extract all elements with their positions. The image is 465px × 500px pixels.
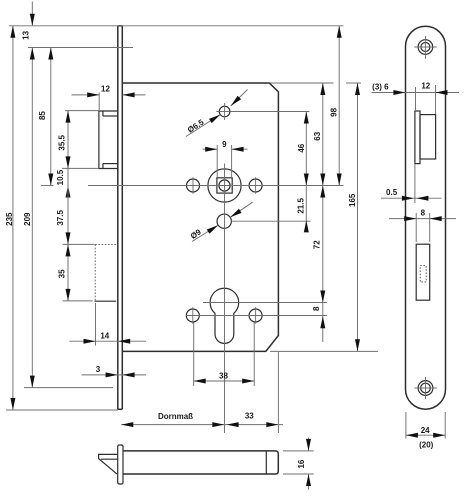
svg-text:(3) 6: (3) 6	[372, 82, 389, 91]
hole D6.5	[219, 106, 230, 117]
svg-text:98: 98	[329, 107, 338, 116]
dimension 8 plan	[389, 218, 456, 220]
svg-text:46: 46	[297, 143, 306, 152]
deadbolt slot	[416, 244, 430, 300]
svg-text:35: 35	[58, 269, 67, 278]
svg-text:Ø6.5: Ø6.5	[186, 117, 206, 134]
screw hole right of cylinder	[249, 309, 262, 322]
fixing hole left of follower	[187, 179, 200, 192]
dimension 24	[406, 434, 445, 436]
svg-text:3: 3	[96, 365, 101, 374]
latch plan view	[415, 111, 420, 164]
svg-text:(20): (20)	[419, 441, 434, 450]
svg-text:16: 16	[297, 459, 306, 468]
dimension 35	[67, 244, 69, 301]
svg-text:8: 8	[312, 306, 321, 311]
svg-text:165: 165	[348, 193, 357, 207]
bottom screw hole	[418, 381, 433, 396]
hole D9	[217, 214, 231, 228]
dimension 209	[31, 48, 33, 388]
dimension 16	[308, 438, 310, 451]
follower inner circle	[219, 180, 230, 191]
latch tip bevel	[99, 454, 118, 474]
svg-text:8: 8	[421, 208, 426, 217]
dimension 38	[194, 380, 255, 382]
dimension 0.5	[381, 197, 442, 199]
D9 centerline right	[231, 220, 310, 222]
209 bottom extension line	[24, 387, 113, 389]
follower square nut	[217, 178, 232, 193]
cylinder horizontal centerline	[203, 302, 327, 304]
svg-text:35.5: 35.5	[58, 134, 67, 150]
profile cylinder hole	[210, 288, 239, 343]
faceplate edge view	[118, 445, 123, 484]
screw holes centerline	[186, 315, 327, 317]
dimension 9	[203, 148, 218, 150]
deadbolt width extension line	[95, 303, 97, 346]
svg-text:10.5: 10.5	[56, 169, 65, 185]
vertical centerline main axis	[224, 164, 226, 434]
top screw axis extension line	[28, 47, 133, 49]
dimension 37.5	[67, 186, 69, 245]
dimension 14	[70, 340, 147, 342]
38 extension lines	[193, 323, 195, 387]
dimension 85	[50, 48, 52, 186]
screw hole left of cylinder	[186, 309, 199, 322]
dimension 235	[12, 26, 14, 410]
svg-text:14: 14	[100, 332, 109, 341]
svg-text:85: 85	[38, 111, 47, 120]
dimension 12 right view	[405, 92, 459, 94]
follower hub circle	[208, 169, 241, 202]
12 extension line	[98, 93, 100, 112]
svg-text:21.5: 21.5	[297, 198, 306, 214]
svg-text:13: 13	[22, 30, 31, 39]
top screw hole	[418, 40, 433, 55]
follower horizontal centerline	[41, 185, 54, 187]
dimension 63	[322, 83, 324, 186]
dimension 165	[357, 83, 359, 351]
dimension 12	[72, 94, 100, 96]
lock body edge view	[123, 451, 278, 474]
dimension 13	[31, 2, 33, 26]
dimension 10.5	[67, 168, 69, 199]
slot width extension lines	[415, 213, 417, 242]
svg-text:209: 209	[23, 212, 32, 226]
faceplate bottom extension line	[6, 409, 118, 411]
cylinder axis extension line	[277, 352, 279, 433]
svg-text:12: 12	[421, 81, 430, 90]
dimension (3) 6 and 12 extension lines	[415, 87, 417, 110]
dimension 3	[82, 374, 147, 376]
svg-text:235: 235	[5, 212, 14, 226]
24 extension lines	[405, 412, 407, 439]
case bottom extension line	[270, 350, 378, 352]
16 extension lines	[283, 450, 314, 452]
fixing hole right of follower	[249, 179, 262, 192]
deadbolt slot inner dashed	[420, 266, 426, 282]
dimension 35.5	[67, 111, 69, 169]
deadbolt hidden outline (dashed)	[95, 243, 117, 245]
svg-text:Ø9: Ø9	[189, 227, 203, 241]
dimension 98	[338, 26, 340, 186]
svg-text:72: 72	[313, 240, 322, 249]
lock case outline	[122, 83, 278, 351]
svg-text:9: 9	[222, 140, 227, 149]
dimension 33	[227, 422, 239, 427]
leader D9	[192, 225, 218, 241]
dimension 72	[322, 186, 324, 303]
latch lip extension line	[414, 164, 416, 203]
dimension (3) 6	[372, 92, 406, 94]
svg-text:12: 12	[101, 84, 110, 93]
latch bolt side profile	[99, 111, 118, 169]
faceplate top extension line	[9, 25, 344, 27]
svg-text:0.5: 0.5	[386, 188, 398, 197]
D6.5 extension line right	[230, 111, 309, 113]
dimension 8 right	[322, 303, 324, 343]
latch top extension line	[65, 110, 99, 112]
faceplate front view strip	[117, 26, 119, 410]
latch bottom extension line	[62, 167, 99, 169]
dimension 21.5	[305, 186, 307, 232]
dimension Dornmass	[121, 424, 283, 426]
svg-text:24: 24	[421, 426, 430, 435]
dimension 9 extension lines	[216, 145, 218, 178]
faceplate plan view outline	[406, 26, 446, 409]
case top extension line	[270, 82, 334, 84]
svg-text:38: 38	[219, 372, 228, 381]
35 top extension line	[63, 243, 95, 245]
svg-text:33: 33	[245, 411, 254, 420]
leader D6.5	[186, 115, 220, 137]
svg-text:37.5: 37.5	[56, 210, 65, 226]
svg-text:63: 63	[313, 131, 322, 140]
35 bottom extension line	[63, 300, 93, 302]
svg-text:Dornmaß: Dornmaß	[158, 412, 193, 421]
dimension 46	[305, 112, 307, 186]
